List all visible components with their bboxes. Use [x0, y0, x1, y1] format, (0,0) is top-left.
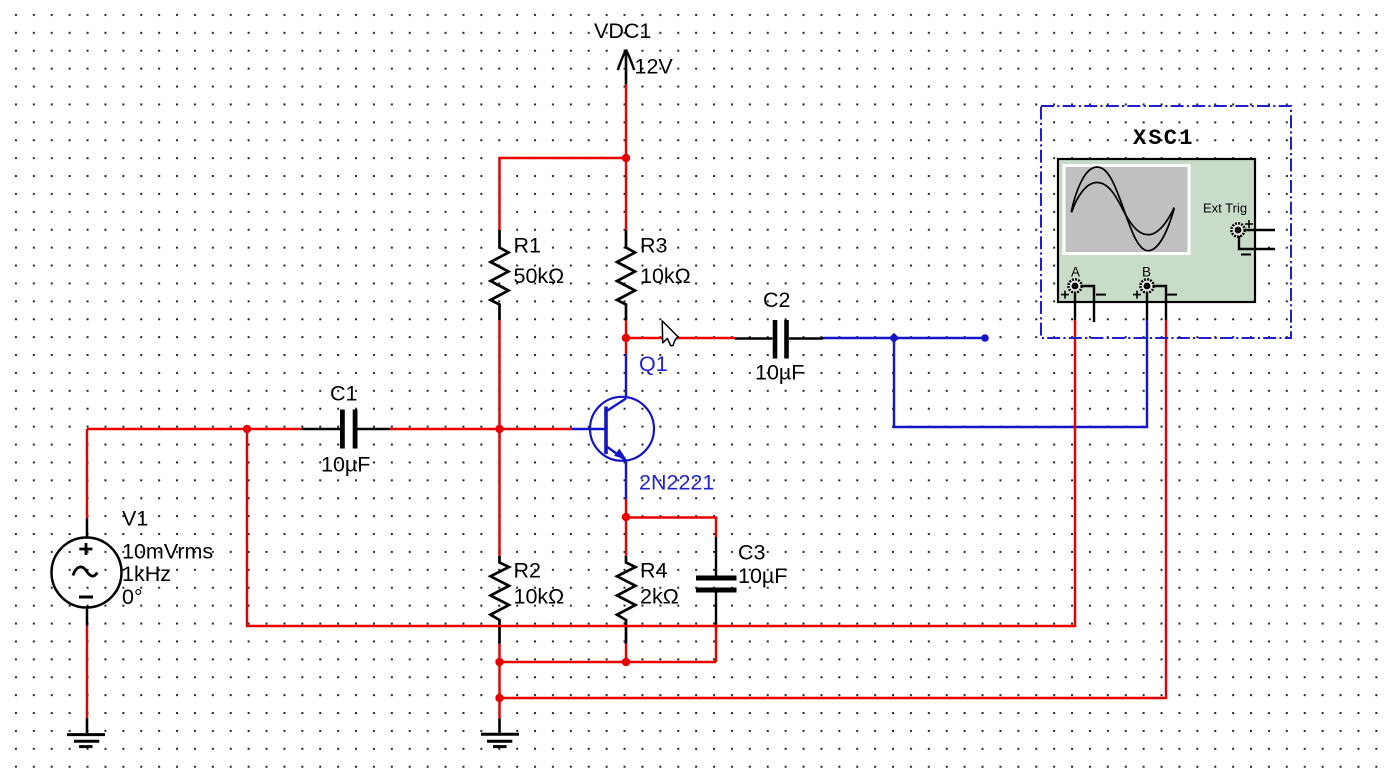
- svg-text:10mVrms: 10mVrms: [122, 540, 213, 564]
- wire emitter stub (red): [625, 499, 627, 517]
- wire R3 bottom to collector node: [625, 320, 627, 338]
- ground below V1: [67, 718, 105, 746]
- node input junction dot: [243, 425, 251, 433]
- wire scope A lead (black): [1074, 292, 1076, 320]
- node out end dot: [981, 334, 989, 342]
- wire collector node to C2: [626, 337, 735, 339]
- svg-text:10µF: 10µF: [738, 564, 787, 588]
- svg-text:V1: V1: [122, 507, 148, 531]
- capacitor C2: [735, 288, 823, 385]
- svg-text:12V: 12V: [635, 55, 674, 79]
- resistor R4: [617, 556, 679, 644]
- svg-text:XSC1: XSC1: [1133, 126, 1195, 151]
- capacitor C1: [302, 382, 390, 477]
- wire emitter ground rail: [500, 661, 717, 663]
- svg-text:B: B: [1142, 265, 1151, 280]
- wire input left segment: [87, 428, 302, 430]
- svg-text:10µF: 10µF: [755, 361, 804, 385]
- terminal B: [1140, 279, 1153, 292]
- svg-text:10kΩ: 10kΩ: [514, 585, 565, 609]
- oscilloscope XSC1: [1041, 106, 1291, 338]
- resistor R1: [491, 230, 565, 320]
- voltage source V1: [52, 429, 214, 718]
- node ground junction: [495, 694, 503, 702]
- node A junction dot: [622, 154, 630, 162]
- wire emitter node to R4: [625, 518, 627, 556]
- svg-text:R2: R2: [514, 559, 541, 583]
- wire collector stub (red): [625, 338, 627, 354]
- svg-text:10kΩ: 10kΩ: [640, 264, 691, 288]
- svg-text:VDC1: VDC1: [594, 19, 651, 43]
- wire scope B minus lead (black): [1153, 286, 1166, 320]
- wire ground rail to scope B minus: [500, 320, 1167, 698]
- svg-text:0°: 0°: [122, 585, 143, 609]
- svg-text:C1: C1: [330, 382, 357, 406]
- svg-text:C3: C3: [738, 541, 766, 565]
- node out junction (blue diamond): [889, 333, 899, 343]
- terminal Ext Trig: [1231, 223, 1244, 236]
- wire VDC1 to node A (top rail): [625, 85, 627, 159]
- wire out node to scope B: [894, 320, 1147, 427]
- resistor R3: [617, 230, 691, 320]
- svg-text:R1: R1: [514, 234, 541, 258]
- transistor Q1: [572, 352, 714, 499]
- node base junction dot: [495, 425, 503, 433]
- svg-text:A: A: [1071, 265, 1080, 280]
- node R4 bottom junction: [622, 658, 630, 666]
- power symbol VDC1: [594, 19, 673, 85]
- wire scope B lead (black): [1146, 292, 1148, 320]
- wire C1 to base node: [390, 428, 572, 430]
- resistor R2: [491, 556, 565, 644]
- ground below R2: [481, 719, 519, 747]
- svg-text:R3: R3: [640, 234, 668, 258]
- wire scope A minus stub: [1081, 286, 1094, 322]
- wire input node down and across to scope A: [247, 320, 1075, 626]
- wire R1 bottom to base node: [498, 320, 500, 429]
- node collector junction dot: [622, 334, 630, 342]
- svg-text:R4: R4: [640, 559, 668, 583]
- node emitter junction dot: [622, 513, 630, 521]
- svg-text:10µF: 10µF: [321, 453, 370, 477]
- svg-text:2kΩ: 2kΩ: [640, 585, 679, 609]
- wire ext trig plus stub: [1244, 229, 1275, 231]
- wire C2 output (blue): [823, 337, 985, 339]
- svg-text:50kΩ: 50kΩ: [514, 264, 565, 288]
- wire top rail to R1: [500, 158, 627, 230]
- svg-text:2N2221: 2N2221: [639, 471, 714, 495]
- mouse cursor: [662, 321, 678, 346]
- svg-text:Q1: Q1: [639, 352, 668, 376]
- terminal A: [1068, 279, 1081, 292]
- wire C3 bottom: [715, 625, 717, 663]
- svg-text:Ext Trig: Ext Trig: [1203, 201, 1247, 216]
- wire emitter node to C3 top: [626, 518, 716, 538]
- capacitor C3: [696, 537, 787, 625]
- node R2 bottom junction: [495, 658, 503, 666]
- wire R4 bottom to emitter ground rail: [625, 644, 627, 662]
- wire ext trig minus stub: [1239, 236, 1275, 249]
- wire node A to R3: [625, 158, 627, 230]
- wire R2 bottom to ground rail: [498, 644, 500, 719]
- svg-text:1kHz: 1kHz: [122, 562, 171, 586]
- svg-text:C2: C2: [763, 288, 790, 312]
- wire base node down to R2: [498, 429, 500, 556]
